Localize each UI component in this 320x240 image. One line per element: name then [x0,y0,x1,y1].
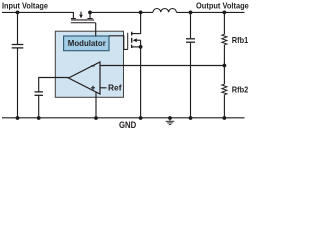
capacitor Cin [12,45,24,48]
node: Q2 source junction [139,45,143,49]
svg-text:Input Voltage: Input Voltage [2,1,48,11]
Q1 gate bar [71,22,96,24]
svg-text:Output Voltage: Output Voltage [196,1,249,11]
capacitor Ccomp [35,92,44,95]
node: feedback tap [223,64,227,68]
node: switch node junction at Q1 drain [88,11,92,15]
wire: error amp output to compensation cap [39,78,69,92]
Q2 gate bar [127,33,129,50]
svg-text:Rfb1: Rfb1 [232,35,249,45]
wire: feedback line to error amp [100,65,224,67]
svg-text:Rfb2: Rfb2 [232,85,249,95]
plus sign [91,86,95,90]
Q1 channel bar [71,19,94,21]
node: switch node to Q2 [139,11,143,15]
wire: ref lead [100,87,107,89]
wire: switch node rail [90,11,153,13]
Q2 drain lead [132,12,141,33]
transistor Q1 (high-side switch) [71,12,96,37]
ground symbol [166,118,175,125]
wire: output rail [176,11,244,13]
Q2 channel bar [131,32,133,48]
wire: comp cap to ground [38,96,40,118]
Q1 drain lead [89,12,91,18]
svg-text:Modulator: Modulator [68,39,106,48]
Q2 gate wire from modulator [109,36,128,50]
Q1 source contact foot [71,18,76,20]
resistor Rfb1 [222,12,227,65]
node: input junction [16,11,20,15]
svg-text:GND: GND [119,120,137,130]
wire: input rail [2,11,73,13]
wire: op-amp ground lead [95,92,97,118]
wire: ground rail [2,117,245,119]
controller block U1 (outer box) [55,31,123,97]
Q2 source lead [132,46,141,48]
node: output cap junction [189,11,193,15]
Q2 body arrow [137,39,141,41]
inductor L1 [153,8,176,12]
Q1 gate lead to modulator [95,23,97,36]
Q2 body/source lead down [140,40,142,118]
modulator block [64,36,109,51]
resistor Rfb2 [222,66,227,119]
wire: input cap top lead [17,12,19,44]
Q1 body arrow [80,12,82,15]
op-amp A1 (error amplifier) [69,62,101,94]
svg-text:Ref: Ref [108,83,122,93]
capacitor Cout [186,12,195,118]
minus sign [91,65,95,67]
transistor Q2 (low-side switch) [109,12,143,118]
Q1 source lead [72,12,74,18]
node: feedback divider top junction [223,11,227,15]
node: ground junctions [16,116,20,120]
Q1 drain contact foot [87,18,92,20]
wire: input cap bottom lead [17,49,19,119]
